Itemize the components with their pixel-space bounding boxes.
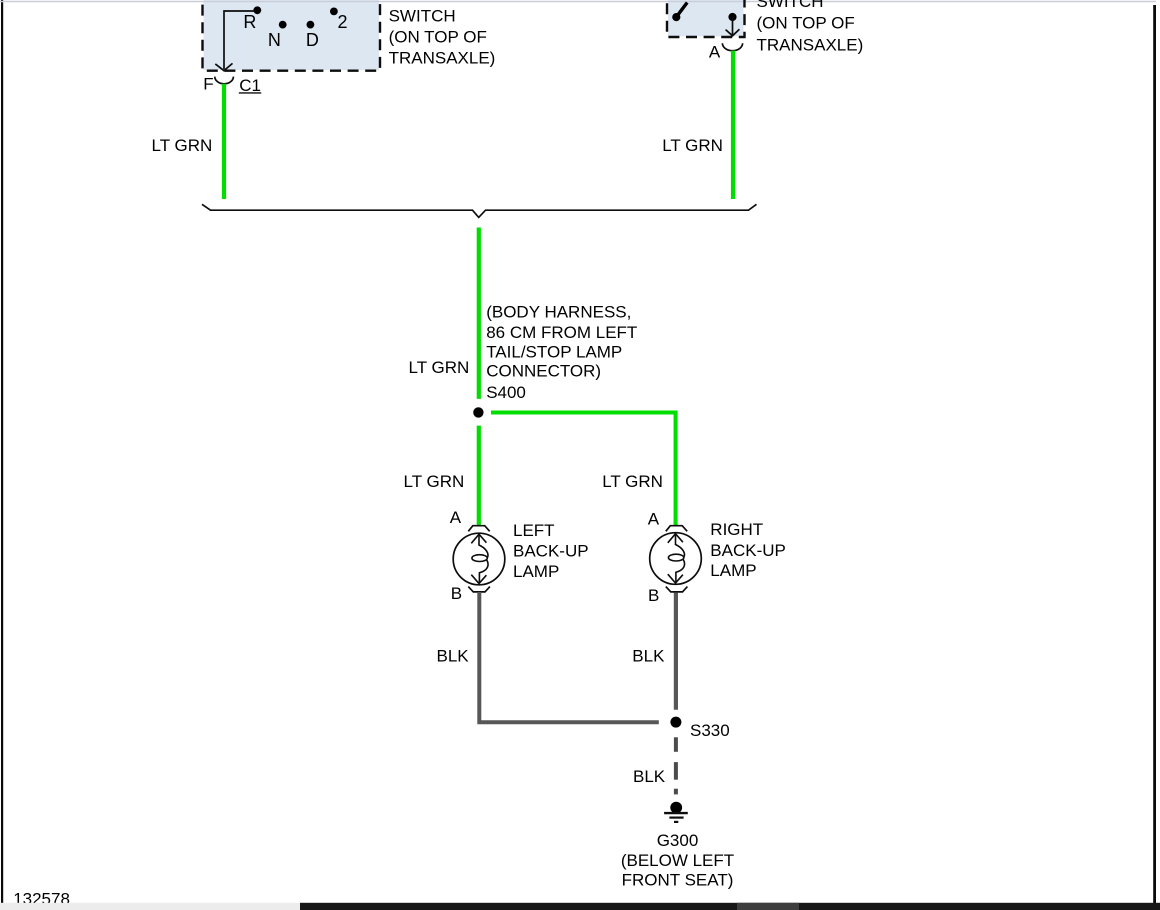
svg-text:86 CM FROM LEFT: 86 CM FROM LEFT	[486, 323, 637, 342]
svg-text:A: A	[709, 42, 721, 61]
svg-text:(BODY HARNESS,: (BODY HARNESS,	[486, 303, 631, 322]
svg-text:BLK: BLK	[632, 646, 665, 665]
svg-text:2: 2	[338, 12, 348, 32]
svg-text:D: D	[306, 30, 319, 50]
svg-text:S400: S400	[486, 383, 526, 402]
svg-text:A: A	[648, 509, 660, 528]
svg-text:LT GRN: LT GRN	[662, 136, 723, 155]
left bulb bottom arrowhead	[471, 575, 486, 584]
right lamp pin A connector	[666, 526, 687, 532]
contact dot D	[307, 21, 315, 29]
svg-text:LT GRN: LT GRN	[409, 358, 470, 377]
wire LT GRN from left switch pin F	[222, 84, 226, 199]
svg-text:CONNECTOR): CONNECTOR)	[486, 362, 601, 381]
dashed BLK wire to ground	[674, 737, 678, 752]
svg-text:A: A	[450, 508, 462, 527]
arrow to pin A	[732, 17, 734, 36]
left bulb filament	[479, 534, 488, 558]
svg-text:B: B	[451, 584, 462, 603]
svg-text:(ON TOP OF: (ON TOP OF	[757, 14, 855, 33]
svg-text:F: F	[203, 74, 213, 93]
contact dot 2	[330, 7, 338, 15]
wire BLK from left lamp pin B	[479, 592, 659, 722]
right lamp pin B connector	[666, 587, 688, 592]
pin A connector cup	[722, 43, 742, 50]
svg-text:BLK: BLK	[633, 767, 666, 786]
svg-text:SWITCH: SWITCH	[389, 6, 456, 25]
wire LT GRN from right switch pin A	[731, 51, 735, 199]
right bulb top arrowhead	[668, 534, 683, 543]
svg-text:B: B	[648, 586, 659, 605]
wire from S400 down to left back-up lamp	[477, 426, 481, 525]
svg-text:LEFT: LEFT	[513, 521, 555, 540]
left back-up lamp bulb circle	[453, 533, 505, 585]
svg-text:FRONT SEAT): FRONT SEAT)	[622, 871, 734, 890]
switch box left: fill	[204, 0, 380, 70]
bottom scrollbar: light track left	[0, 903, 300, 910]
svg-text:SWITCH: SWITCH	[757, 0, 824, 11]
right bulb bottom arrowhead	[668, 574, 683, 583]
left lamp pin A connector	[468, 526, 489, 532]
svg-text:TRANSAXLE): TRANSAXLE)	[389, 48, 496, 67]
svg-text:N: N	[268, 30, 281, 50]
contact dot R	[253, 6, 261, 14]
svg-text:LAMP: LAMP	[710, 561, 756, 580]
switch pivot dot	[672, 13, 680, 21]
contact dot N	[279, 21, 287, 29]
switch box left: dashed border	[203, 0, 381, 71]
svg-text:BLK: BLK	[437, 646, 470, 665]
svg-text:G300: G300	[657, 831, 699, 850]
right bulb filament	[676, 534, 685, 558]
svg-text:C1: C1	[239, 76, 261, 95]
svg-text:BACK-UP: BACK-UP	[710, 541, 786, 560]
svg-text:R: R	[243, 12, 256, 32]
left bulb top arrowhead	[471, 534, 486, 543]
svg-text:BACK-UP: BACK-UP	[513, 542, 589, 561]
wire BLK from right lamp pin B	[674, 593, 678, 710]
switch lever	[677, 3, 687, 17]
right page border	[1153, 5, 1156, 903]
top frame line	[0, 1, 1156, 3]
left page border	[1, 0, 3, 903]
svg-text:(ON TOP OF: (ON TOP OF	[389, 28, 487, 47]
svg-text:(BELOW LEFT: (BELOW LEFT	[621, 851, 734, 870]
svg-text:LT GRN: LT GRN	[602, 472, 663, 491]
svg-text:LT GRN: LT GRN	[404, 472, 465, 491]
splice S400 junction dot	[473, 407, 483, 417]
splice S330 junction dot	[670, 717, 681, 728]
pin F connector cup	[215, 77, 234, 84]
switch box right: dashed border	[667, 0, 745, 37]
selector arm wire (arrow to R inside left switch)	[224, 11, 256, 69]
arrowhead at pin F	[215, 63, 232, 70]
wire LT GRN from brace to splice S400	[477, 228, 481, 399]
svg-text:RIGHT: RIGHT	[710, 520, 763, 539]
ground G300 symbol	[670, 802, 682, 814]
bottom scrollbar: thumb	[737, 903, 799, 910]
bottom scrollbar: dark area	[300, 903, 1160, 910]
wire branch to right back-up lamp	[491, 413, 676, 526]
switch contact dot (above A)	[728, 13, 736, 21]
svg-text:TRANSAXLE): TRANSAXLE)	[757, 36, 864, 55]
svg-text:S330: S330	[690, 721, 730, 740]
svg-text:TAIL/STOP LAMP: TAIL/STOP LAMP	[486, 343, 622, 362]
left lamp pin B connector	[468, 587, 490, 592]
svg-text:LT GRN: LT GRN	[152, 136, 213, 155]
brace joining the two wires	[202, 204, 757, 217]
right back-up lamp bulb circle	[650, 533, 702, 585]
switch box right: fill	[668, 0, 744, 36]
svg-text:LAMP: LAMP	[513, 562, 559, 581]
